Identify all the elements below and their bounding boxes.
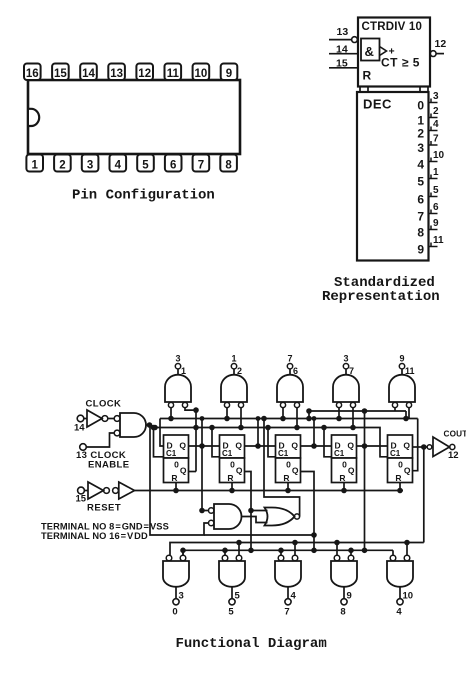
svg-text:9: 9	[347, 591, 352, 602]
svg-text:14: 14	[74, 423, 85, 434]
svg-text:1: 1	[231, 354, 236, 364]
FF2 Q to FF3 D wire	[245, 416, 276, 449]
svg-text:15: 15	[76, 494, 87, 505]
AND dependency box inside control block	[361, 39, 380, 61]
svg-text:15: 15	[54, 68, 67, 80]
pin 3 (bottom row)	[82, 155, 99, 172]
svg-text:DEC: DEC	[363, 97, 392, 112]
svg-text:7: 7	[417, 210, 424, 224]
svg-text:4: 4	[115, 160, 122, 172]
decoded output 5 (pin 1)	[417, 167, 439, 189]
pin 7 (bottom row)	[193, 155, 210, 172]
svg-text:12: 12	[138, 68, 151, 80]
pin 2 (bottom row)	[54, 155, 71, 172]
carry node drop wire	[423, 447, 425, 543]
label 12 (carry out pin)	[448, 450, 459, 461]
FF3 clock input wire	[265, 425, 275, 457]
svg-text:2: 2	[433, 106, 439, 117]
FF5 reset wire	[397, 483, 403, 494]
feedback NOR gate	[265, 508, 300, 526]
decoded output 0 (pin 3)	[417, 91, 439, 113]
FF5 Q-bar feedback wire to upper bus	[413, 419, 418, 471]
label COUT	[444, 430, 466, 439]
label CTRDIV 10	[362, 21, 423, 33]
connection tabs between control block and DEC block	[360, 87, 428, 93]
svg-text:1: 1	[31, 160, 38, 172]
FF1 clock input wire	[151, 425, 164, 457]
clock inverter	[87, 410, 114, 427]
svg-text:Q: Q	[235, 441, 242, 451]
svg-text:7: 7	[433, 134, 439, 145]
svg-text:Q: Q	[347, 441, 354, 451]
svg-text:Q: Q	[236, 466, 243, 476]
FF4 clock input wire	[321, 425, 331, 457]
D flip-flop FF3	[276, 435, 301, 483]
label DEC	[363, 97, 392, 112]
svg-text:Pin Configuration: Pin Configuration	[72, 188, 215, 204]
input pin 13 (clock enable, active low)	[329, 26, 357, 42]
pin-1 index notch	[29, 109, 39, 126]
decode AND gate (top row 4), output terminal pin 3	[333, 354, 359, 408]
svg-text:Q: Q	[403, 441, 410, 451]
svg-text:R: R	[395, 473, 401, 483]
svg-text:0: 0	[342, 460, 347, 470]
pin 5 (bottom row)	[137, 155, 154, 172]
IC package U1 body (DIP-16)	[28, 80, 240, 154]
lower bus wire B	[170, 543, 424, 556]
FF1 reset wire	[173, 483, 179, 494]
label 13 CLOCK ENABLE	[76, 450, 129, 471]
pin 14 (top row)	[80, 64, 97, 81]
caption: Functional Diagram	[176, 636, 327, 652]
pin 11 (top row)	[165, 64, 182, 81]
svg-text:R: R	[171, 473, 177, 483]
svg-text:Representation: Representation	[322, 289, 440, 305]
svg-text:ENABLE: ENABLE	[88, 460, 129, 471]
svg-text:5: 5	[433, 185, 439, 196]
svg-text:1: 1	[433, 167, 439, 178]
label CT >= 5	[381, 56, 420, 70]
feedback AND bottom input loop wire	[150, 425, 208, 535]
FF4 Q to FF5 D wire	[357, 443, 388, 449]
svg-text:R: R	[283, 473, 289, 483]
svg-text:C1: C1	[278, 449, 289, 458]
svg-text:C1: C1	[390, 449, 401, 458]
clock input terminal pin 14	[74, 415, 87, 433]
svg-text:3: 3	[417, 141, 424, 155]
svg-text:Q: Q	[348, 466, 355, 476]
svg-text:13: 13	[337, 26, 349, 38]
svg-text:10: 10	[195, 68, 208, 80]
svg-text:0: 0	[417, 99, 424, 113]
FF1 D input wire	[160, 419, 164, 447]
caption: Pin Configuration	[72, 188, 215, 204]
NOR output feedback wire to FF1 D	[261, 416, 299, 517]
FF2 reset wire	[229, 483, 235, 494]
svg-text:Q: Q	[179, 441, 186, 451]
decode AND gate (bottom row 3), output terminal pin 4	[275, 555, 301, 617]
reset buffer	[113, 482, 135, 499]
label CLOCK	[86, 399, 122, 410]
gate2 input wires	[224, 408, 244, 431]
svg-text:7: 7	[284, 607, 289, 618]
label TERMINAL NO 16 = VDD	[41, 531, 148, 541]
svg-text:5: 5	[417, 175, 424, 189]
FF1 Q-bar feedback wire	[189, 471, 197, 473]
decode AND gate (top row 5), output terminal pin 9	[389, 354, 415, 408]
input pin 14 (clock)	[329, 43, 358, 55]
NOR bottom input wire	[242, 517, 268, 523]
D flip-flop FF2	[220, 435, 245, 483]
svg-text:12: 12	[448, 450, 459, 461]
pin 4 (bottom row)	[110, 155, 127, 172]
svg-text:9: 9	[399, 354, 404, 364]
svg-text:9: 9	[433, 218, 439, 229]
label RESET	[87, 503, 121, 514]
gate1 input wires	[168, 407, 199, 471]
svg-text:0: 0	[286, 460, 291, 470]
svg-text:7: 7	[287, 354, 292, 364]
bottom gate 3 input wires	[278, 540, 298, 556]
svg-text:&: &	[365, 44, 374, 59]
svg-text:11: 11	[167, 68, 180, 80]
decode AND gate (bottom row 4), output terminal pin 9	[331, 555, 357, 617]
svg-text:4: 4	[396, 607, 402, 618]
label TERMINAL NO 8 = GND = VSS	[41, 522, 169, 532]
lower bus wire C	[180, 548, 393, 556]
svg-text:10: 10	[403, 591, 414, 602]
FF5 Q output to carry buffer	[413, 444, 427, 450]
clock bus wire (lower)	[152, 428, 388, 457]
svg-text:3: 3	[179, 591, 184, 602]
dynamic clock input symbol with +	[380, 46, 395, 58]
D flip-flop FF5	[388, 435, 413, 483]
svg-text:9: 9	[226, 68, 232, 80]
pin 9 (top row)	[221, 64, 238, 81]
decoded output 4 (pin 10)	[417, 150, 444, 172]
D flip-flop FF1	[164, 435, 189, 483]
D flip-flop FF4	[332, 435, 357, 483]
svg-text:1: 1	[417, 114, 424, 128]
svg-text:0: 0	[172, 607, 177, 618]
bottom gate 1 input wires	[182, 550, 184, 555]
svg-text:C1: C1	[222, 449, 233, 458]
pin 15 (top row)	[52, 64, 69, 81]
FF3 reset wire	[285, 483, 291, 494]
bottom gate 4 input wires	[334, 540, 354, 556]
caption: Standardized Representation	[322, 275, 440, 305]
svg-text:4: 4	[417, 158, 424, 172]
svg-text:3: 3	[175, 354, 180, 364]
svg-text:CT ≥ 5: CT ≥ 5	[381, 56, 420, 70]
svg-text:R: R	[339, 473, 345, 483]
clock NAND gate	[114, 413, 146, 437]
pin 10 (top row)	[193, 64, 210, 81]
FF3 Q-bar tap wire	[301, 472, 317, 554]
label R (reset input)	[363, 69, 372, 83]
bottom gate 2 input wires	[222, 540, 242, 556]
svg-text:COUT: COUT	[444, 430, 466, 439]
svg-text:8: 8	[340, 607, 345, 618]
pin 12 (top row)	[136, 64, 153, 81]
gate3 input wires	[280, 408, 300, 431]
svg-text:8: 8	[417, 226, 424, 240]
svg-text:8: 8	[225, 160, 232, 172]
svg-text:6: 6	[417, 193, 424, 207]
svg-text:9: 9	[417, 243, 424, 257]
svg-text:Q: Q	[292, 466, 299, 476]
FF4 reset wire	[341, 483, 347, 494]
svg-text:2: 2	[417, 127, 424, 141]
svg-text:4: 4	[433, 119, 439, 130]
reset inverter	[88, 482, 109, 499]
decoder block DEC outline	[357, 92, 429, 261]
svg-text:3: 3	[433, 91, 439, 102]
feedback AND top input wire	[199, 416, 208, 513]
svg-text:Q: Q	[291, 441, 298, 451]
decoded output 6 (pin 5)	[417, 185, 439, 207]
decoded output 2 (pin 4)	[417, 119, 439, 141]
decode AND gate (top row 2), output terminal pin 1	[221, 354, 247, 408]
decode AND gate (bottom row 5), output terminal pin 10	[387, 555, 413, 617]
carry-out buffer	[427, 437, 455, 457]
svg-text:Q: Q	[180, 466, 187, 476]
lower bus wire A	[204, 534, 314, 536]
counter control block CTRDIV10 outline	[358, 18, 430, 87]
pin 1 (bottom row)	[26, 155, 43, 172]
svg-text:6: 6	[433, 202, 439, 213]
svg-text:14: 14	[82, 68, 95, 80]
svg-text:C1: C1	[166, 449, 177, 458]
decoded output 9 (pin 11)	[417, 235, 444, 257]
svg-text:12: 12	[435, 38, 447, 50]
decode AND gate (bottom row 1), output terminal pin 3	[163, 555, 189, 617]
gate4 input wires	[336, 408, 356, 431]
NOR top input wire	[248, 508, 267, 514]
svg-text:R: R	[363, 69, 372, 83]
svg-text:2: 2	[59, 160, 65, 172]
input pin 15 (reset)	[329, 57, 358, 69]
svg-text:0: 0	[398, 460, 403, 470]
clock enable terminal pin 13	[80, 433, 115, 450]
svg-text:4: 4	[291, 591, 297, 602]
clock bus wire (upper)	[160, 418, 418, 420]
feedback AND gate	[209, 504, 242, 529]
svg-text:16: 16	[26, 68, 39, 80]
svg-text:C1: C1	[334, 449, 345, 458]
decode AND gate (bottom row 2), output terminal pin 5	[219, 555, 245, 617]
FF3 Q to FF4 D wire	[301, 416, 332, 449]
svg-text:5: 5	[142, 160, 149, 172]
svg-text:RESET: RESET	[87, 503, 121, 514]
svg-text:11: 11	[433, 235, 444, 246]
svg-text:13: 13	[110, 68, 123, 80]
reset input terminal pin 15	[76, 487, 89, 504]
svg-text:3: 3	[87, 160, 93, 172]
svg-text:TERMINAL NO 16 = V DD: TERMINAL NO 16 = V DD	[41, 531, 148, 541]
FF4 Q-bar tap wire (long vertical)	[362, 408, 368, 553]
FF1 Q to FF2 D wire	[189, 443, 220, 449]
svg-text:Q: Q	[404, 466, 411, 476]
svg-text:CTRDIV 10: CTRDIV 10	[362, 21, 423, 33]
svg-text:6: 6	[170, 160, 176, 172]
svg-text:7: 7	[198, 160, 204, 172]
decode AND gate (top row 1), output terminal pin 3	[165, 354, 191, 408]
decoded output 1 (pin 2)	[417, 106, 439, 128]
FF2 clock input wire	[209, 425, 219, 457]
svg-text:CLOCK: CLOCK	[86, 399, 122, 410]
svg-text:3: 3	[343, 354, 348, 364]
decoded output 8 (pin 9)	[417, 218, 439, 240]
decoded output 3 (pin 7)	[417, 134, 439, 156]
reset bus wire	[135, 490, 404, 492]
clock NAND output node	[146, 422, 158, 430]
svg-text:10: 10	[433, 150, 445, 161]
pin 8 (bottom row)	[220, 155, 237, 172]
decode AND gate (top row 3), output terminal pin 7	[277, 354, 303, 408]
pin 16 (top row)	[24, 64, 41, 81]
pin 6 (bottom row)	[165, 155, 182, 172]
pin 13 (top row)	[108, 64, 125, 81]
svg-text:R: R	[227, 473, 233, 483]
svg-text:0: 0	[230, 460, 235, 470]
svg-text:Functional Diagram: Functional Diagram	[176, 636, 327, 652]
svg-text:5: 5	[228, 607, 234, 618]
decoded output 7 (pin 6)	[417, 202, 439, 224]
svg-text:15: 15	[336, 57, 348, 69]
gate5 input feed wire (y=411 rail)	[306, 408, 409, 422]
bottom gate 5 input wires	[393, 540, 410, 556]
svg-text:14: 14	[336, 43, 348, 55]
output pin 12 (carry out, active low)	[430, 38, 446, 56]
FF2 Q-bar tap wire	[245, 472, 254, 554]
svg-text:0: 0	[174, 460, 179, 470]
svg-text:5: 5	[235, 591, 241, 602]
